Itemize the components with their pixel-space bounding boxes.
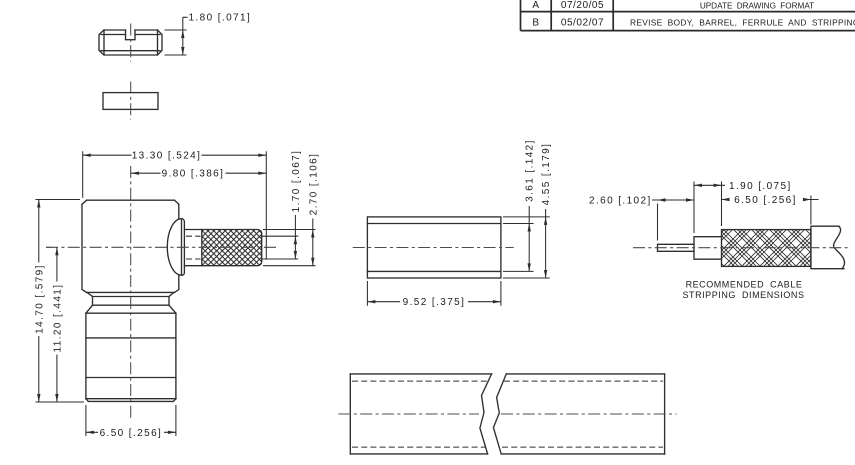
dielectric [694, 237, 722, 260]
lower plug barrel [86, 313, 176, 401]
svg-text:2.60 [.102]: 2.60 [.102] [589, 195, 652, 206]
center conductor [658, 244, 695, 251]
dim 13.30 [.524] [83, 151, 267, 259]
ferrule centerline [353, 247, 514, 249]
svg-text:STRIPPING DIMENSIONS: STRIPPING DIMENSIONS [682, 290, 804, 300]
dim 2.70 [.106] (rotated) [308, 153, 319, 266]
dim 1.80 [.071] [165, 12, 252, 55]
dim 9.80 [.386] [131, 169, 266, 180]
ferrule tube outline [367, 217, 501, 278]
svg-text:A: A [532, 0, 539, 11]
braid [722, 230, 811, 267]
knurled crimp barrel [202, 229, 262, 265]
hidden bore lines in neck [186, 236, 201, 259]
dome flange on right face [167, 219, 184, 276]
tubing outline [350, 374, 664, 454]
break line left [480, 374, 492, 454]
dim 2.60 [.102] [589, 182, 694, 241]
svg-text:11.20 [.441]: 11.20 [.441] [52, 284, 63, 353]
svg-text:RECOMMENDED CABLE: RECOMMENDED CABLE [686, 280, 803, 290]
svg-text:6.50 [.256]: 6.50 [.256] [100, 428, 163, 439]
dim 6.50 [.256] (cable) [722, 195, 819, 225]
svg-text:9.52 [.375]: 9.52 [.375] [403, 297, 466, 308]
neck between flange and knurl (OD) [184, 230, 201, 266]
cable axis centerline [633, 247, 849, 249]
hidden inner wall lines [352, 381, 663, 447]
tubing centerline [338, 413, 676, 415]
dim 3.61 [.142] (rotated) [503, 139, 536, 271]
svg-text:13.30 [.524]: 13.30 [.524] [132, 151, 202, 162]
svg-text:UPDATE DRAWING FORMAT: UPDATE DRAWING FORMAT [700, 1, 814, 10]
caption: recommended cable stripping dimensions [682, 280, 804, 301]
svg-text:B: B [532, 17, 539, 28]
svg-text:2.70 [.106]: 2.70 [.106] [308, 153, 319, 216]
washer (plain rectangle view) [103, 93, 158, 110]
svg-text:6.50 [.256]: 6.50 [.256] [734, 195, 797, 206]
dim 6.50 [.256] (bottom of connector) [86, 405, 176, 439]
table row A text [532, 0, 814, 11]
svg-text:REVISE BODY, BARREL, FERRULE A: REVISE BODY, BARREL, FERRULE AND STRIPPI… [630, 18, 855, 28]
slot [126, 30, 136, 40]
break line right [493, 374, 506, 454]
svg-text:14.70 [.579]: 14.70 [.579] [34, 264, 45, 334]
dim 11.20 [.441] (rotated) [46, 247, 63, 402]
dim 4.55 [.179] (rotated) [503, 143, 552, 278]
table borders [521, 0, 855, 31]
table row B text [532, 17, 855, 28]
nut vertical centerline [130, 24, 132, 62]
jacket with break curve [811, 226, 845, 269]
svg-text:1.80 [.071]: 1.80 [.071] [189, 12, 252, 23]
dim 9.52 [.375] [367, 281, 501, 308]
svg-text:4.55 [.179]: 4.55 [.179] [541, 143, 552, 206]
washer vertical centerline [130, 82, 132, 120]
svg-text:9.80 [.386]: 9.80 [.386] [162, 169, 225, 180]
dim 1.90 [.075] [694, 181, 792, 226]
svg-text:3.61 [.142]: 3.61 [.142] [525, 139, 536, 202]
svg-text:1.90 [.075]: 1.90 [.075] [729, 181, 792, 192]
lower interface: transition from body [86, 292, 176, 313]
svg-text:07/20/05: 07/20/05 [561, 0, 604, 11]
svg-text:05/02/07: 05/02/07 [561, 17, 604, 28]
nut outline with chamfered corners and slot [99, 30, 162, 55]
horizontal axis centerline [46, 246, 279, 248]
dim 14.70 [.579] (rotated, far left) [34, 200, 84, 403]
body square [82, 200, 179, 292]
vertical centerline of lower barrel [130, 166, 132, 419]
svg-text:1.70 [.067]: 1.70 [.067] [291, 150, 302, 213]
dim 1.70 [.067] (rotated) [291, 150, 302, 259]
cable entry tube right of knurl (also 1.70 extension lines) [262, 236, 299, 259]
knurl OD extension lines (for 2.70) [263, 230, 316, 266]
